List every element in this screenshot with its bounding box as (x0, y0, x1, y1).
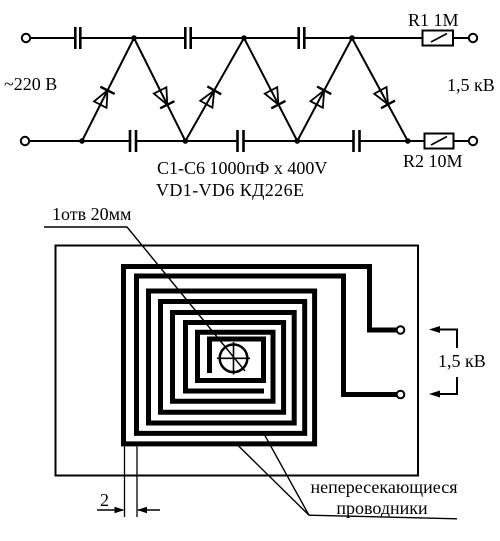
svg-text:C1-C6 1000пФ x 400V: C1-C6 1000пФ x 400V (157, 158, 327, 178)
node 6 junction (295, 138, 301, 144)
svg-text:1отв 20мм: 1отв 20мм (52, 204, 131, 224)
PCB board outline (56, 246, 419, 476)
wire bottom rail: terminal to C2 through node 4 (30, 140, 130, 142)
dimension arrow right (138, 509, 160, 511)
diode VD5 (310, 87, 332, 109)
node 5 junction (183, 138, 189, 144)
wire top rail: C3 to C5 through node 2 (191, 37, 298, 39)
diode VD2 (153, 87, 174, 108)
wire bottom rail: C4 to C6 through node 6 (244, 140, 353, 142)
solder pad lower (1,5 kV) (397, 391, 405, 399)
hole center cross vertical (233, 342, 235, 375)
diode VD4 (264, 87, 286, 109)
leader line to conductor B (263, 431, 310, 515)
wire R2 to output terminal (454, 140, 469, 142)
wire R1 to output terminal (453, 37, 469, 39)
resistor R1 (423, 31, 454, 46)
wire bottom rail: C2 to C4 through node 5 (137, 140, 238, 142)
input terminal top (~220 V) (22, 34, 30, 42)
svg-text:непересекающиеся: непересекающиеся (311, 477, 458, 497)
wire top rail: C1 to C3 through node 1 (82, 37, 185, 39)
svg-text:~220 В: ~220 В (4, 74, 57, 94)
wire diode branch VD6 (352, 38, 408, 141)
capacitor C2 (130, 130, 136, 152)
svg-text:R2 10M: R2 10M (403, 151, 463, 171)
hole center cross horizontal (217, 357, 250, 359)
dimension extension line right (136, 447, 138, 518)
svg-text:VD1-VD6 КД226Е: VD1-VD6 КД226Е (156, 180, 304, 200)
wire diode branch VD1 (82, 38, 134, 141)
mounting hole circle (220, 345, 248, 373)
node 3 junction (349, 35, 355, 41)
node 1 junction (131, 35, 137, 41)
solder pad upper (1,5 kV) (397, 326, 405, 334)
spiral conductor B (to lower pad) (137, 276, 398, 433)
leader line to hole (44, 227, 245, 371)
resistor R2 (425, 134, 454, 149)
svg-text:R1 1M: R1 1M (408, 10, 459, 30)
input terminal bottom (~220 V) (21, 137, 29, 145)
wire diode branch VD3 (185, 38, 244, 141)
wire diode branch VD2 (134, 38, 185, 141)
svg-text:проводники: проводники (336, 498, 428, 518)
dimension arrow left (97, 509, 123, 511)
spiral conductor A (outer, to upper pad) (124, 267, 398, 444)
capacitor C1 (75, 27, 80, 49)
svg-text:1,5 кВ: 1,5 кВ (438, 351, 486, 371)
node 4 junction (79, 138, 85, 144)
wire bottom rail: C6 to R2 through node 7 (360, 140, 425, 142)
arrow to upper pad (433, 330, 457, 349)
wire top rail: terminal to C1 (31, 37, 75, 39)
capacitor C5 (299, 27, 305, 49)
wire top rail: C5 to R1 through node 3 (305, 37, 423, 39)
diode VD3 (199, 86, 221, 108)
svg-text:1,5 кВ: 1,5 кВ (447, 75, 495, 95)
arrow to lower pad (433, 377, 457, 394)
output terminal bottom (1,5 kV) (469, 137, 477, 145)
wire diode branch VD4 (244, 38, 297, 141)
capacitor C6 (354, 130, 360, 152)
node 2 junction (241, 35, 247, 41)
wire diode branch VD5 (297, 38, 352, 141)
leader underline (309, 515, 457, 519)
dimension extension line left (124, 447, 126, 518)
capacitor C3 (185, 27, 190, 49)
diode VD6 (373, 87, 395, 109)
diode VD1 (93, 87, 114, 108)
capacitor C4 (238, 130, 244, 152)
node 7 junction (405, 138, 411, 144)
svg-text:2: 2 (100, 490, 109, 510)
output terminal top (1,5 kV) (469, 34, 477, 42)
leader line to conductor A (236, 444, 309, 516)
